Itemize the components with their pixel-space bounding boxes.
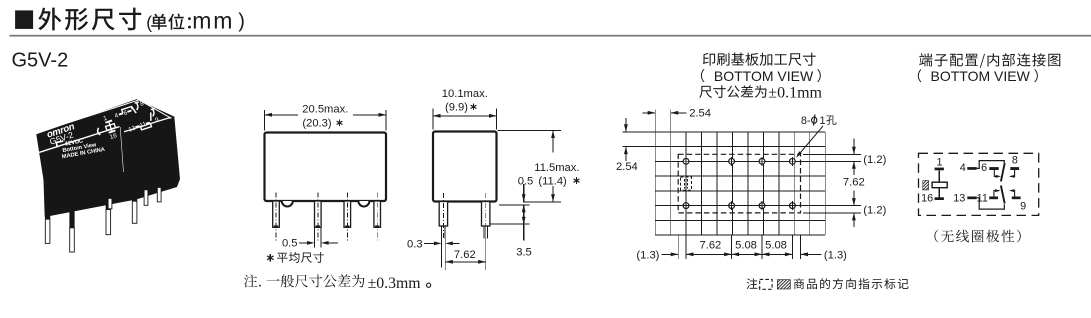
svg-text:(11.4): (11.4) <box>538 175 567 187</box>
svg-text:7.62: 7.62 <box>700 239 722 251</box>
svg-text:±0.1mm: ±0.1mm <box>768 84 822 101</box>
svg-text:11.5max.: 11.5max. <box>534 162 579 174</box>
svg-text:(: ( <box>146 12 152 32</box>
svg-text:8-: 8- <box>801 115 811 127</box>
svg-text:1: 1 <box>820 115 826 127</box>
svg-text:9: 9 <box>1020 201 1026 213</box>
svg-text:13: 13 <box>953 192 965 204</box>
svg-text:±0.3mm: ±0.3mm <box>368 275 422 292</box>
svg-text:3.5: 3.5 <box>516 246 532 258</box>
svg-text:mm: mm <box>192 8 234 34</box>
svg-text:20.5max.: 20.5max. <box>302 104 348 116</box>
svg-text:BOTTOM VIEW: BOTTOM VIEW <box>931 68 1031 84</box>
svg-text:G5V-2: G5V-2 <box>12 50 69 72</box>
svg-text:5.08: 5.08 <box>765 239 787 251</box>
svg-text:BOTTOM VIEW: BOTTOM VIEW <box>714 68 814 84</box>
svg-text:): ) <box>238 10 245 32</box>
svg-text:16: 16 <box>921 193 933 205</box>
svg-text:(1.2): (1.2) <box>863 204 886 216</box>
svg-text:(9.9): (9.9) <box>445 101 468 113</box>
svg-text:8: 8 <box>1012 155 1018 167</box>
svg-text:6: 6 <box>981 162 987 174</box>
svg-text:(1.3): (1.3) <box>824 250 847 262</box>
svg-text:1: 1 <box>936 156 942 168</box>
svg-text:5.08: 5.08 <box>735 239 757 251</box>
svg-text:2.54: 2.54 <box>616 161 638 173</box>
svg-text:10.1max.: 10.1max. <box>442 88 488 100</box>
svg-text:0.3: 0.3 <box>407 239 423 251</box>
svg-text:0.5: 0.5 <box>282 238 298 250</box>
svg-text:11: 11 <box>977 192 988 204</box>
svg-text:7.62: 7.62 <box>843 176 865 188</box>
svg-text:2.54: 2.54 <box>689 108 711 120</box>
svg-text:(1.2): (1.2) <box>863 154 886 166</box>
svg-text:7.62: 7.62 <box>454 249 476 261</box>
svg-text:4: 4 <box>960 162 966 174</box>
svg-text:(20.3): (20.3) <box>302 117 331 129</box>
svg-text:0.5: 0.5 <box>518 175 534 187</box>
svg-text:(1.3): (1.3) <box>636 250 659 262</box>
